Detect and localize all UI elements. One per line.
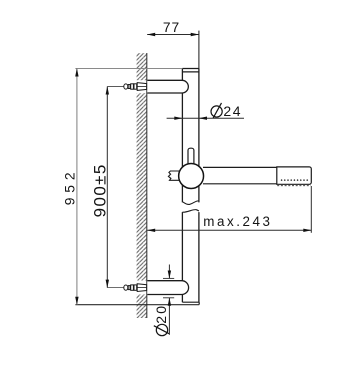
dimension 952 line (76, 69, 78, 305)
top screw connector line (107, 86, 123, 88)
svg-text:77: 77 (163, 20, 180, 35)
slider body circle (179, 164, 204, 189)
svg-text:max.243: max.243 (203, 214, 272, 229)
rail bottom cap (182, 302, 199, 304)
grip hidden bottom dashed line (277, 185, 311, 187)
slider lever nub (168, 171, 181, 180)
rail top cap (182, 69, 199, 72)
bottom screw connector line (107, 287, 123, 289)
slider clamp stem (188, 148, 194, 166)
wall surface line (146, 53, 148, 318)
dimension 952 arrows (75, 68, 78, 305)
hand shower grip (277, 167, 312, 184)
svg-text:952: 952 (62, 168, 77, 206)
bottom screw head (124, 285, 128, 290)
svg-text:24: 24 (223, 103, 242, 119)
grip knurl dots (281, 179, 309, 181)
rail tube right edge (198, 69, 200, 303)
rail tube left edge (181, 69, 183, 303)
top wall anchor (137, 83, 146, 91)
dimension 900±5 arrows (106, 86, 109, 288)
dimension Ø20 ticks (163, 278, 174, 297)
dimension Ø20 line lower (168, 298, 170, 335)
dimension 900±5 line (106, 87, 108, 288)
wall hatch band (136, 53, 147, 318)
dimension 77 arrows (147, 33, 199, 36)
dimension max.243 line (147, 229, 311, 231)
dimension Ø24 leader line (167, 117, 244, 119)
dimension max.243 extension (310, 186, 312, 233)
svg-text:900±5: 900±5 (91, 163, 110, 217)
dimension Ø20 line upper (168, 265, 170, 279)
dimension max.243 arrows (147, 229, 312, 232)
top screw threads (128, 84, 137, 89)
bottom wall anchor (137, 284, 146, 292)
rail break (broken view) (181, 201, 200, 212)
dimension Ø20 arrows (168, 271, 171, 306)
dimension Ø24 arrows (174, 117, 207, 120)
dimension Ø20 diameter symbol (154, 324, 169, 335)
dimension Ø24 diameter symbol (211, 103, 222, 118)
top screw head (124, 84, 128, 89)
dimension 952 extension top (75, 68, 182, 70)
bottom mounting bracket arm (147, 281, 188, 295)
hand shower tube arm (200, 167, 277, 183)
dimension 77 line (147, 31, 199, 69)
top mounting bracket arm (147, 80, 188, 93)
bottom screw threads (128, 285, 137, 290)
dimension 952 extension bottom (75, 304, 199, 306)
svg-text:20: 20 (153, 304, 169, 324)
